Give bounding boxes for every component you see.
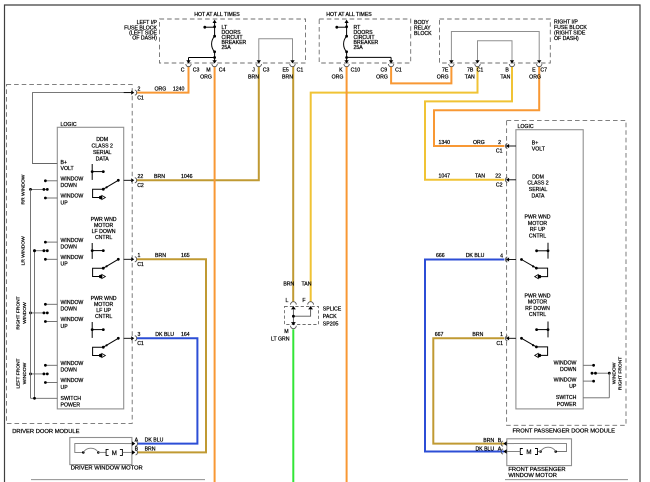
svg-text:1: 1 [138,253,141,259]
svg-text:B: B [505,68,509,74]
svg-text:DOWN: DOWN [61,183,78,189]
svg-text:UP: UP [61,262,69,268]
svg-text:C9: C9 [380,68,387,74]
svg-text:M: M [284,329,288,335]
svg-text:ORG: ORG [155,86,167,92]
svg-text:DOWN: DOWN [61,368,78,374]
svg-text:ORG: ORG [200,75,212,81]
svg-text:CLASS 2: CLASS 2 [527,181,548,187]
svg-text:2: 2 [138,86,141,92]
svg-text:WINDOW: WINDOW [22,362,28,384]
svg-text:PACK: PACK [323,314,337,320]
svg-text:165: 165 [181,253,190,259]
svg-text:CNTRL: CNTRL [95,314,112,320]
svg-text:PWR WND: PWR WND [91,296,117,302]
svg-text:DRIVER DOOR MODULE: DRIVER DOOR MODULE [12,429,79,435]
svg-text:M: M [526,449,531,456]
svg-text:BRN: BRN [483,438,494,444]
svg-text:M: M [112,450,117,457]
svg-text:RR WINDOW: RR WINDOW [21,174,27,204]
svg-text:VOLT: VOLT [61,166,75,172]
svg-text:B: B [498,438,502,444]
svg-text:DDM: DDM [96,137,108,143]
svg-text:BRN: BRN [145,446,156,452]
svg-text:TAN: TAN [475,174,485,180]
svg-text:SERIAL: SERIAL [93,150,112,156]
svg-text:DOWN: DOWN [61,244,78,250]
svg-text:WINDOW: WINDOW [554,378,577,384]
svg-text:DRIVER WINDOW MOTOR: DRIVER WINDOW MOTOR [71,466,143,472]
svg-text:ORG: ORG [332,75,344,81]
svg-text:FRONT PASSENGER DOOR MODULE: FRONT PASSENGER DOOR MODULE [513,428,616,434]
svg-text:C7: C7 [540,68,547,74]
svg-text:1340: 1340 [439,140,451,146]
svg-text:WINDOW: WINDOW [61,317,84,323]
svg-text:BRN: BRN [283,282,294,288]
svg-text:MOTOR: MOTOR [528,221,547,227]
svg-text:TAN: TAN [500,75,510,81]
svg-text:DDM: DDM [532,174,544,180]
svg-text:C1: C1 [496,341,503,347]
svg-text:A: A [135,437,139,443]
svg-text:UP: UP [61,200,69,206]
svg-text:667: 667 [435,332,444,338]
svg-text:UP: UP [61,324,69,330]
svg-text:DATA: DATA [531,194,545,200]
svg-text:C2: C2 [137,183,144,189]
svg-text:DK BLU: DK BLU [466,253,485,259]
svg-text:WINDOW: WINDOW [61,361,84,367]
svg-text:E5: E5 [282,68,288,74]
svg-text:C1: C1 [137,341,144,347]
svg-text:UP: UP [569,384,577,390]
svg-text:C1: C1 [395,68,402,74]
svg-text:LT GRN: LT GRN [271,337,290,343]
svg-text:BRN: BRN [155,253,166,259]
svg-text:WINDOW: WINDOW [61,378,84,384]
svg-text:SWITCH: SWITCH [61,396,82,402]
svg-text:DATA: DATA [96,156,110,162]
svg-text:C2: C2 [496,182,503,188]
svg-text:PWR WND: PWR WND [91,217,117,223]
svg-text:3: 3 [138,332,141,338]
svg-text:C1: C1 [297,68,304,74]
svg-text:MOTOR: MOTOR [528,300,547,306]
svg-text:C1: C1 [137,262,144,268]
svg-text:4: 4 [500,253,503,259]
svg-text:BRN: BRN [154,174,165,180]
svg-text:ORG: ORG [437,75,449,81]
svg-text:E: E [532,68,536,74]
svg-text:1: 1 [500,332,503,338]
svg-text:C1: C1 [496,149,503,155]
svg-text:CNTRL: CNTRL [95,235,112,241]
svg-text:BRN: BRN [472,332,483,338]
svg-text:ORG: ORG [473,140,485,146]
svg-text:DOWN: DOWN [61,307,78,313]
svg-text:WINDOW MOTOR: WINDOW MOTOR [508,473,557,479]
svg-text:OF DASH): OF DASH) [132,36,157,42]
svg-text:RF UP: RF UP [530,227,546,233]
svg-text:WINDOW: WINDOW [61,300,84,306]
svg-text:PWR WND: PWR WND [525,215,551,221]
svg-text:7B: 7B [467,68,474,74]
svg-text:C4: C4 [219,68,226,74]
svg-text:SERIAL: SERIAL [529,187,548,193]
svg-text:WINDOW: WINDOW [22,302,28,324]
svg-text:DOWN: DOWN [560,367,577,373]
svg-text:WINDOW: WINDOW [61,177,84,183]
svg-text:C3: C3 [193,68,200,74]
svg-text:22: 22 [495,174,501,180]
svg-text:POWER: POWER [557,402,577,408]
svg-text:F: F [302,298,305,304]
svg-text:22: 22 [138,174,144,180]
svg-text:CNTRL: CNTRL [529,233,546,239]
svg-text:B: B [135,446,139,452]
svg-text:C3: C3 [263,68,270,74]
svg-text:RIGHT FRONT: RIGHT FRONT [618,357,624,390]
svg-text:C10: C10 [351,68,361,74]
svg-text:L: L [286,298,289,304]
svg-text:POWER: POWER [61,402,81,408]
svg-text:MOTOR: MOTOR [94,302,113,308]
svg-text:LOGIC: LOGIC [61,122,77,128]
svg-text:C: C [181,68,185,74]
svg-text:WINDOW: WINDOW [61,238,84,244]
svg-text:CLASS 2: CLASS 2 [92,143,113,149]
svg-text:BRN: BRN [282,75,293,81]
svg-text:VOLT: VOLT [532,147,546,153]
svg-text:SPLICE: SPLICE [323,307,342,313]
svg-text:J: J [252,68,255,74]
svg-text:C1: C1 [477,68,484,74]
svg-text:BLOCK: BLOCK [414,31,432,37]
svg-text:WINDOW: WINDOW [611,362,617,384]
svg-text:HOT AT ALL TIMES: HOT AT ALL TIMES [326,12,372,18]
svg-text:HOT AT ALL TIMES: HOT AT ALL TIMES [194,12,240,18]
svg-text:164: 164 [181,332,190,338]
svg-text:BRN: BRN [248,75,259,81]
svg-text:25A: 25A [354,45,364,51]
svg-text:WINDOW: WINDOW [61,194,84,200]
svg-text:ORG: ORG [376,75,388,81]
svg-text:SP205: SP205 [323,321,339,327]
svg-text:1240: 1240 [173,86,185,92]
svg-text:25A: 25A [222,45,232,51]
svg-text:7E: 7E [442,68,449,74]
svg-text:DK BLU: DK BLU [145,437,164,443]
svg-text:TAN: TAN [465,75,475,81]
svg-text:A: A [498,446,502,452]
svg-text:WINDOW: WINDOW [554,361,577,367]
svg-text:C1: C1 [137,95,144,101]
svg-text:B+: B+ [61,160,68,166]
svg-text:RF DOWN: RF DOWN [525,306,550,312]
svg-text:SWITCH: SWITCH [556,395,577,401]
svg-text:ORG: ORG [529,75,541,81]
svg-text:UP: UP [61,385,69,391]
svg-text:DK BLU: DK BLU [155,332,174,338]
svg-text:LOGIC: LOGIC [518,124,534,130]
svg-text:M: M [206,68,210,74]
svg-text:B+: B+ [532,140,539,146]
svg-text:LF DOWN: LF DOWN [92,229,116,235]
svg-text:PWR WND: PWR WND [525,294,551,300]
svg-text:LR WINDOW: LR WINDOW [21,236,27,265]
svg-text:TAN: TAN [302,282,312,288]
svg-text:1046: 1046 [181,174,193,180]
svg-text:FRONT PASSENGER: FRONT PASSENGER [508,467,565,473]
svg-text:2: 2 [498,140,501,146]
svg-text:666: 666 [436,253,445,259]
svg-text:OF DASH): OF DASH) [554,36,579,42]
svg-text:K: K [339,68,343,74]
svg-text:DK BLU: DK BLU [475,446,494,452]
svg-text:1047: 1047 [439,174,451,180]
svg-text:LF UP: LF UP [96,308,111,314]
svg-text:LEFT FRONT: LEFT FRONT [15,358,21,388]
svg-text:MOTOR: MOTOR [94,223,113,229]
svg-text:WINDOW: WINDOW [61,255,84,261]
svg-text:RIGHT FRONT: RIGHT FRONT [15,296,21,329]
svg-text:CNTRL: CNTRL [529,312,546,318]
